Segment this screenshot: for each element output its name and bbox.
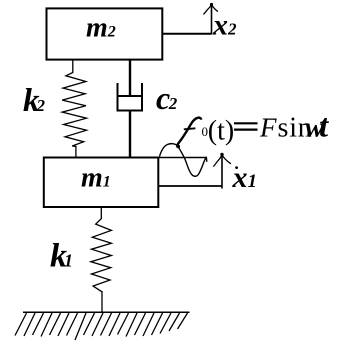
sine axis line (m1 top extension) [158, 157, 206, 159]
spring k2 [62, 60, 86, 158]
force label f0(t)= Fsinwt [177, 118, 201, 148]
svg-text:x2: x2 [212, 9, 237, 42]
svg-text:m1: m1 [81, 163, 111, 194]
wire from m2 to x2 arrow [162, 33, 211, 35]
svg-text:(t): (t) [208, 115, 234, 146]
damper c2 rod lower [129, 112, 131, 158]
svg-text:c2: c2 [156, 80, 178, 116]
svg-text:m2: m2 [86, 13, 116, 44]
force line m1 to x1 arrow [158, 185, 222, 187]
mass m1 box [44, 158, 159, 208]
svg-text:F: F [259, 113, 277, 143]
ground line [23, 311, 190, 313]
damper c2 cylinder [118, 83, 143, 111]
damper c2 rod upper [129, 60, 131, 96]
sine wave symbol [160, 144, 207, 177]
svg-text:k2: k2 [23, 83, 46, 119]
damper c2 piston plate [118, 95, 142, 97]
mass m2 box [47, 8, 163, 59]
spring k1 [91, 208, 112, 313]
arrow x2 [211, 5, 213, 35]
svg-text:t: t [319, 109, 329, 145]
arrow x1 [221, 155, 223, 189]
svg-text:k1: k1 [50, 238, 73, 275]
svg-text:x1: x1 [232, 161, 258, 194]
ground hatching [15, 313, 188, 340]
